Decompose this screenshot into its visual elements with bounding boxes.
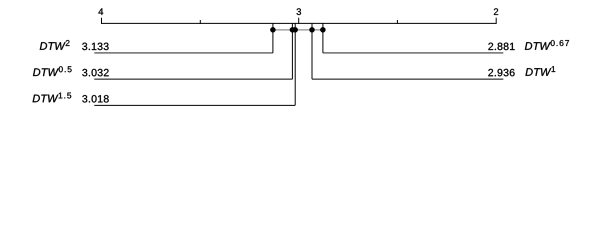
stem DTW^2 (rank 3.133)	[272, 23, 274, 53]
marker dot DTW^0.5	[290, 27, 295, 32]
rank value 3.018	[82, 95, 108, 102]
rank value 3.133	[82, 43, 108, 50]
marker dot DTW^1.5	[293, 27, 298, 32]
rank value 3.032	[82, 69, 108, 76]
marker dot DTW^0.67	[320, 27, 325, 32]
axis tick label 2	[494, 8, 498, 15]
label line DTW^1.5	[94, 104, 295, 106]
marker dot DTW^2	[270, 27, 275, 32]
marker dot DTW^1	[309, 27, 314, 32]
label line DTW^0.67	[323, 52, 503, 54]
axis tick label 3	[297, 8, 301, 15]
label line DTW^0.5	[94, 78, 292, 80]
rank value 2.881	[488, 43, 514, 50]
method label DTW^1.5	[33, 93, 72, 103]
label line DTW^1	[312, 78, 503, 80]
stem DTW^0.67 (rank 2.881)	[322, 23, 324, 53]
minor tick rank 3.5	[199, 20, 201, 24]
label line DTW^2	[94, 52, 273, 54]
method label DTW^0.5	[33, 66, 72, 76]
stem DTW^1.5 (rank 3.018)	[294, 23, 296, 105]
method label DTW^2	[40, 40, 70, 50]
stem DTW^0.5 (rank 3.032)	[291, 23, 293, 79]
axis tick label 4	[98, 8, 103, 14]
rank value 2.936	[488, 69, 514, 76]
major tick rank 4	[101, 18, 103, 24]
minor tick rank 2.5	[396, 20, 398, 24]
clique line connecting all five methods (grey, no significant difference)	[273, 29, 323, 31]
stem DTW^1 (rank 2.936)	[311, 23, 313, 79]
major tick rank 3	[298, 18, 300, 24]
method label DTW^0.67	[525, 40, 569, 50]
method label DTW^1	[526, 66, 556, 76]
major tick rank 2	[495, 18, 497, 24]
axis line (rank axis 4 to 2)	[102, 22, 497, 24]
